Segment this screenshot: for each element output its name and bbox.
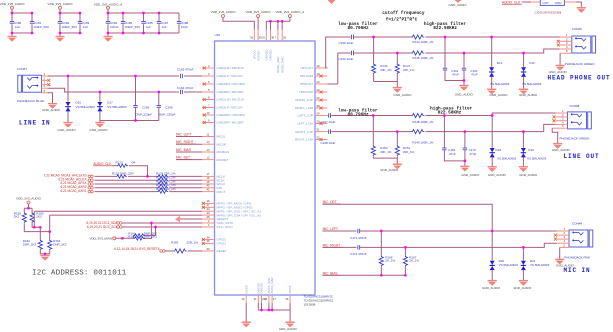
svg-text:MIC3L: MIC3L — [217, 135, 226, 139]
resistor R128 — [95, 187, 203, 193]
resistor R159 — [14, 212, 27, 224]
svg-text:DVSS: DVSS — [244, 285, 248, 293]
svg-text:RESET: RESET — [217, 249, 227, 253]
pin 33 RESET — [202, 247, 227, 253]
capacitor C165 DNP — [133, 75, 152, 121]
svg-text:47nF: 47nF — [452, 73, 459, 77]
ground CON7 GND_AUDIO — [42, 104, 61, 112]
svg-text:17: 17 — [207, 172, 210, 176]
diode D18 — [490, 114, 517, 166]
svg-text:R144 100R_1%: R144 100R_1% — [412, 40, 434, 44]
pin 36 DVDD — [250, 30, 256, 60]
resistor R162 DNP — [128, 235, 157, 240]
svg-text:CON#6: CON#6 — [572, 27, 582, 31]
capacitor C182 — [58, 21, 77, 29]
resistor R167 — [403, 246, 419, 277]
svg-text:R149 100R_1%: R149 100R_1% — [412, 141, 434, 145]
svg-text:DNP_2K2: DNP_2K2 — [53, 243, 67, 247]
pin 10 LINE2RM — [202, 111, 245, 117]
svg-text:GND_AUDIO: GND_AUDIO — [42, 108, 61, 112]
pin 43 MFP0 — [202, 211, 261, 217]
ground group3 — [103, 37, 112, 42]
resistor R145 — [411, 51, 434, 60]
svg-text:GND_AUDIO: GND_AUDIO — [549, 70, 568, 74]
svg-text:DRVDD: DRVDD — [269, 49, 273, 61]
net label MCA0_MCA3_AHCLKX0 — [44, 174, 94, 178]
svg-text:GND_AUDIO: GND_AUDIO — [519, 173, 538, 177]
svg-text:LINE2RP / MIC2RP: LINE2RP / MIC2RP — [217, 121, 244, 125]
svg-text:GND_AUDIO: GND_AUDIO — [455, 92, 474, 96]
connector CON6 phonejack green — [572, 27, 596, 53]
svg-text:36: 36 — [250, 36, 253, 40]
pin 9 LINE2RP — [202, 118, 244, 124]
svg-text:MICBIAS: MICBIAS — [217, 150, 230, 154]
svg-text:LINE1RP / MIC1RP: LINE1RP / MIC1RP — [217, 90, 244, 94]
pin 47 AVSS_DAC — [270, 276, 276, 303]
ground D21 — [513, 281, 532, 291]
svg-text:cutoff frequency: cutoff frequency — [382, 11, 425, 16]
ground CON6 — [549, 66, 568, 74]
svg-text:1012808: 1012808 — [304, 303, 316, 307]
svg-text:C159 10uF: C159 10uF — [339, 41, 354, 45]
wire VDD to R159 R160 — [24, 204, 32, 212]
svg-text:45: 45 — [207, 215, 210, 219]
svg-text:C164 470nF: C164 470nF — [177, 86, 194, 90]
svg-text:20K_1%: 20K_1% — [380, 68, 392, 72]
CON8 pin 1 — [555, 109, 567, 113]
pin 22 HPRCOM — [299, 88, 327, 94]
svg-text:DNP_220pF: DNP_220pF — [159, 113, 176, 117]
pin 29 LEFT_LOP — [298, 111, 328, 117]
svg-text:47nF: 47nF — [470, 152, 477, 156]
ground AVSS GND_AUDIO — [279, 322, 298, 331]
svg-text:6,19,20,21 I2C3_SCL: 6,19,20,21 I2C3_SCL — [87, 225, 118, 229]
wire LINE IN left channel — [48, 75, 203, 77]
connector CON7 phonejack blue — [17, 67, 44, 103]
svg-text:AVSS_DAC: AVSS_DAC — [270, 276, 274, 293]
svg-text:U20: U20 — [215, 33, 221, 37]
svg-text:LINE IN: LINE IN — [19, 120, 51, 127]
resistor R165 — [171, 240, 202, 253]
capacitor C188 — [177, 21, 189, 29]
pin 17 MCLK — [202, 172, 226, 178]
pin 11 MIC3L — [202, 132, 226, 138]
svg-text:6,12,14,15,18,21 SYS_RESET#: 6,12,14,15,18,21 SYS_RESET# — [114, 247, 160, 251]
svg-text:C172 470nF: C172 470nF — [350, 252, 367, 256]
ground HP shunt — [393, 88, 412, 97]
svg-text:18: 18 — [317, 64, 320, 68]
net label MCA0_AXR1 — [60, 189, 93, 193]
svg-text:10uF: 10uF — [181, 25, 188, 29]
capacitor C171 — [350, 229, 367, 240]
ground fragment with GND_AUDIO top — [449, 0, 468, 7]
svg-text:20K_1%: 20K_1% — [403, 68, 415, 72]
net label MIC_DET at U20 — [176, 156, 202, 160]
svg-text:MIC IN: MIC IN — [564, 267, 591, 274]
svg-text:VDD_3V3_AUDIO: VDD_3V3_AUDIO — [16, 197, 42, 201]
svg-text:2K2: 2K2 — [14, 215, 20, 219]
wire R163 R164 to ground — [40, 251, 49, 255]
diode D19 — [521, 130, 547, 166]
CON9 pin 2 — [554, 231, 569, 237]
resistor R122 — [112, 161, 148, 177]
svg-text:C163 470nF: C163 470nF — [177, 68, 194, 72]
CON6 pin 1 — [560, 33, 572, 37]
pin 15 WCLK — [202, 180, 226, 186]
svg-text:AVDD_DAC: AVDD_DAC — [280, 56, 284, 73]
svg-text:VS.5MLA0603: VS.5MLA0603 — [76, 105, 96, 109]
svg-text:21: 21 — [254, 297, 257, 301]
capacitor C169 shunt — [442, 114, 465, 161]
power net VDD_3V3_MAIN — [89, 236, 115, 240]
capacitor C185 — [121, 21, 140, 29]
svg-text:2K_1%: 2K_1% — [385, 259, 395, 263]
ground D15 — [519, 89, 538, 97]
resistor R124 — [156, 171, 202, 178]
wire R150 R151 rail — [373, 157, 397, 159]
svg-text:VS.5MLA0603: VS.5MLA0603 — [107, 105, 127, 109]
svg-text:DRVSS: DRVSS — [260, 283, 264, 294]
svg-text:1uF: 1uF — [162, 25, 167, 29]
diode D15 — [521, 52, 542, 89]
svg-text:MONO_LOM: MONO_LOM — [295, 106, 313, 110]
svg-text:PHONEJACK GREEN: PHONEJACK GREEN — [560, 136, 590, 140]
pin 12 MICDET — [202, 155, 228, 161]
diode D21 — [521, 246, 550, 280]
pin 5 LINE1RP — [202, 88, 244, 94]
ground D14 — [487, 89, 508, 97]
svg-text:MIC_DET: MIC_DET — [323, 200, 337, 204]
svg-text:32: 32 — [317, 135, 320, 139]
wire VDD_3V3_AUDIO_A rail — [108, 9, 179, 36]
svg-text:LEFT_LOP: LEFT_LOP — [298, 114, 313, 118]
svg-text:15: 15 — [207, 180, 210, 184]
diode D16 — [65, 75, 95, 123]
wire VDD_3V3_AUDIO rail — [60, 9, 80, 36]
wire R146 R147 rail — [374, 81, 398, 83]
svg-text:100nF: 100nF — [110, 25, 119, 29]
CON6 pin 5 — [560, 49, 572, 53]
resistor R125 — [95, 176, 203, 182]
ground LO shunt — [380, 164, 402, 172]
ground D18 — [488, 167, 507, 177]
diode D14 — [489, 36, 510, 89]
resistor R147 shunt — [395, 52, 414, 88]
svg-text:GND_AUDIO: GND_AUDIO — [393, 93, 412, 97]
svg-text:47: 47 — [273, 297, 276, 301]
wire CON8 pin5 to ground — [552, 128, 558, 143]
net label I2C3_SDA — [86, 221, 202, 225]
svg-text:16: 16 — [207, 176, 210, 180]
svg-text:VDD_1V8_AUDIO: VDD_1V8_AUDIO — [0, 2, 25, 6]
ground CON9 — [555, 259, 575, 267]
CON6 pin 4 — [560, 45, 572, 49]
pin 28 MONO_LOM — [295, 104, 327, 110]
pin 19 HPLCOM — [300, 72, 328, 78]
svg-text:C166: C166 — [166, 106, 174, 110]
svg-text:LEFT_LOM: LEFT_LOM — [297, 122, 313, 126]
CON9 pin 1 — [557, 227, 569, 231]
svg-text:VS.5MLA0603: VS.5MLA0603 — [490, 82, 510, 86]
wire R159 to MFP0 net — [24, 215, 202, 232]
svg-text:f=1/2*PI*R*C: f=1/2*PI*R*C — [386, 18, 418, 23]
pin 49 AVSS — [285, 285, 292, 303]
capacitor C180 — [10, 21, 22, 29]
wire LEFT_LOP to filter — [327, 113, 555, 116]
power net VDD_1V8_AUDIO — [0, 2, 25, 9]
capacitor C170 shunt — [463, 130, 477, 166]
pin 14 MIC3R — [202, 140, 227, 146]
svg-text:44: 44 — [207, 207, 210, 211]
svg-text:MIC3R: MIC3R — [217, 142, 227, 146]
svg-text:46: 46 — [207, 199, 210, 203]
power net VDD_3V3_AUDIO_A at U20 — [276, 10, 306, 18]
capacitor C160 — [339, 51, 354, 61]
CON7 pin 5 — [42, 89, 48, 93]
wire VDD_1V8_AUDIO to DVDD — [223, 18, 254, 30]
capacitor C161 shunt — [443, 36, 464, 81]
pin 26 AVDD_DAC — [280, 30, 286, 74]
resistor R144 — [411, 35, 434, 44]
svg-text:13: 13 — [207, 148, 210, 152]
wire CON6 pin5 to ground — [559, 53, 561, 65]
ground C169 C170 — [460, 166, 480, 177]
svg-text:30: 30 — [317, 119, 320, 123]
svg-text:CON#7: CON#7 — [17, 67, 27, 71]
capacitor C164 — [177, 86, 194, 94]
wire HPROUT to filter — [327, 49, 559, 84]
CON8 pin 4 — [555, 120, 567, 124]
svg-text:C160 10uF: C160 10uF — [339, 57, 354, 61]
svg-text:PHONEJACK BLUE: PHONEJACK BLUE — [17, 99, 44, 103]
svg-text:R123 DNP_22R: R123 DNP_22R — [112, 171, 134, 175]
junction SCL riser — [144, 227, 156, 235]
svg-text:VS.5MLA0603: VS.5MLA0603 — [530, 263, 550, 267]
wire CON7 pin5 to ground — [48, 93, 53, 104]
net label MIC_BIAS at U20 — [176, 148, 202, 152]
svg-text:1uF: 1uF — [146, 25, 151, 29]
svg-text:HPROUT: HPROUT — [300, 82, 313, 86]
svg-text:100nF_50V: 100nF_50V — [62, 25, 78, 29]
svg-text:R128 22R_1%: R128 22R_1% — [156, 187, 176, 191]
svg-text:6,21 MCA0_AXR1: 6,21 MCA0_AXR1 — [60, 189, 86, 193]
svg-text:42: 42 — [242, 297, 245, 301]
resistor R151 shunt — [395, 130, 414, 164]
svg-text:100nF_50V: 100nF_50V — [125, 25, 141, 29]
svg-text:47: 47 — [207, 203, 210, 207]
wire VDD_3V3_MAIN to resistors — [116, 235, 134, 238]
svg-text:LINE1RM / MIC1RM: LINE1RM / MIC1RM — [217, 82, 246, 86]
resistor R161 DNP — [128, 231, 157, 237]
ground group2 — [55, 37, 64, 42]
svg-text:43: 43 — [207, 211, 210, 215]
svg-text:31: 31 — [317, 127, 320, 131]
svg-text:10: 10 — [207, 111, 210, 115]
svg-text:LINE2LP / MIC2LP: LINE2LP / MIC2LP — [217, 106, 243, 110]
svg-text:23: 23 — [317, 80, 320, 84]
resistor R123 DNP — [95, 171, 158, 178]
connector CON8 phonejack green — [568, 104, 592, 129]
svg-text:35: 35 — [207, 239, 210, 243]
capacitor C162 shunt — [462, 52, 478, 86]
junction dots group2 — [59, 12, 62, 15]
op-amp U20 TLV320AIC3106 body — [215, 33, 316, 295]
svg-text:D19: D19 — [528, 148, 534, 152]
resistor R164 DNP — [48, 232, 67, 251]
svg-text:OUT: OUT — [542, 1, 549, 5]
pin 13 MICBIAS — [202, 148, 229, 154]
pin 7 AVDD_ADC — [275, 30, 281, 74]
svg-text:LINE2LM / MIC2LM: LINE2LM / MIC2LM — [217, 98, 245, 102]
svg-text:IOVDD: IOVDD — [257, 50, 261, 61]
svg-text:48: 48 — [264, 297, 267, 301]
wire VDD_3V3_AUDIO_A rail to AVDD pins — [266, 18, 290, 30]
svg-text:14: 14 — [207, 140, 210, 144]
CON9 pin 3 — [554, 235, 569, 241]
svg-text:19: 19 — [317, 72, 320, 76]
power net VDD_3V3_AUDIO at U20 — [246, 10, 272, 18]
CON6 pin 3 — [557, 41, 572, 47]
svg-text:34: 34 — [207, 235, 210, 239]
wire DVSS to ground — [245, 303, 247, 322]
svg-text:R148 100R_1%: R148 100R_1% — [412, 120, 434, 124]
net label MIC_LEFT — [323, 227, 557, 231]
svg-text:822.58KHz: 822.58KHz — [433, 26, 457, 31]
ground pulldowns — [40, 256, 49, 261]
CON8 pin 2 — [553, 113, 568, 119]
capacitor C167 — [321, 113, 336, 124]
svg-text:47nF: 47nF — [471, 73, 478, 77]
ground D17 — [89, 123, 108, 132]
svg-text:49: 49 — [285, 297, 288, 301]
svg-text:C171 470nF: C171 470nF — [350, 236, 367, 240]
pin 23 HPROUT — [300, 80, 327, 86]
capacitor C184 — [106, 21, 119, 29]
ground D16 — [58, 123, 77, 132]
svg-text:CON#9: CON#9 — [572, 222, 582, 226]
svg-text:31: 31 — [262, 36, 265, 40]
CON7 pin 3 — [42, 81, 51, 87]
svg-text:CJO05-24576332C608: CJO05-24576332C608 — [535, 10, 562, 14]
svg-text:29: 29 — [317, 111, 320, 115]
pin 48 AVSS_ADC — [264, 276, 271, 303]
svg-text:SCL / GPIO: SCL / GPIO — [217, 225, 234, 229]
pin 3 LINE1LP — [202, 72, 242, 78]
net label MIC_BIAS — [323, 272, 406, 276]
svg-text:GND_AUDIO: GND_AUDIO — [488, 173, 507, 177]
ground oscillator — [577, 8, 586, 13]
CON9 pin 5 — [560, 243, 569, 247]
capacitor C159 — [339, 35, 354, 45]
wire CON9 pin5 to ground — [559, 247, 561, 259]
wire LINE IN right channel — [48, 88, 203, 92]
ground CON8 — [552, 144, 571, 152]
oscillator U CJO05 — [531, 0, 581, 7]
svg-text:RIGHT_LOM: RIGHT_LOM — [295, 138, 313, 142]
svg-text:D14: D14 — [497, 61, 503, 65]
svg-text:RIGHT_LOP: RIGHT_LOP — [295, 130, 313, 134]
resistor R163 DNP — [23, 227, 43, 250]
resistor R166 — [379, 230, 395, 277]
capacitor C168 — [321, 129, 336, 144]
svg-text:22: 22 — [317, 88, 320, 92]
svg-text:CON#8: CON#8 — [569, 104, 579, 108]
resistor R127 — [95, 183, 203, 189]
pin 30 LEFT_LOM — [297, 119, 327, 125]
text high-pass filter LO — [430, 107, 473, 116]
power net VDD_3V3_AUDIO top — [48, 2, 74, 9]
capacitor C181 — [30, 21, 49, 29]
pin 8 LINE2LM — [202, 95, 244, 101]
SELECT arrow — [175, 216, 202, 223]
text cutoff frequency — [382, 11, 425, 23]
pin 44 MFP1 — [202, 207, 261, 213]
CON9 pin 4 — [557, 239, 569, 243]
svg-text:MIC_DET: MIC_DET — [176, 156, 190, 160]
svg-text:VS.5MLA0603: VS.5MLA0603 — [499, 263, 519, 267]
wire RIGHT_LOP to filter — [327, 124, 555, 131]
ground DVSS — [242, 322, 251, 327]
svg-text:R122: R122 — [116, 161, 124, 165]
pin 31 RIGHT_LOP — [295, 127, 327, 133]
net label I2C3_SCL — [87, 225, 202, 229]
svg-text:D18: D18 — [496, 148, 502, 152]
wire R160 to MFP1 net — [32, 211, 202, 227]
svg-text:822.58KHz: 822.58KHz — [438, 110, 462, 115]
svg-text:LINE OUT: LINE OUT — [564, 153, 600, 160]
capacitor C166 DNP — [157, 91, 176, 121]
text high-pass filter HP — [424, 22, 467, 31]
svg-text:I2C ADDRESS: 0011011: I2C ADDRESS: 0011011 — [32, 270, 127, 278]
svg-text:DOUT: DOUT — [217, 190, 226, 194]
junction SDA riser — [144, 223, 152, 238]
svg-text:VDD_3V3_AUDIO_A: VDD_3V3_AUDIO_A — [276, 10, 306, 14]
pin 46 MFP3 — [202, 199, 252, 205]
svg-text:C168 10uF: C168 10uF — [321, 141, 336, 145]
svg-text:100nF_50V: 100nF_50V — [34, 25, 50, 29]
svg-text:GND_AUDIO: GND_AUDIO — [380, 168, 399, 172]
ground D19 — [519, 167, 538, 177]
svg-text:MIC_LEFT: MIC_LEFT — [176, 133, 191, 137]
svg-text:R162: R162 — [128, 235, 136, 239]
svg-text:1uF: 1uF — [83, 25, 88, 29]
svg-text:2K_1%: 2K_1% — [409, 259, 419, 263]
pin 35 GPIO1 — [202, 239, 226, 245]
svg-text:VDD_3V3_AUDIO: VDD_3V3_AUDIO — [246, 10, 272, 14]
net label AUDIO_CLK — [93, 162, 112, 166]
connector CON9 phonejack pink — [569, 222, 593, 247]
CON7 pin 4 — [42, 84, 48, 88]
pin 1 SCL — [202, 223, 233, 229]
power net VDD_3V3_AUDIO_A top — [94, 3, 124, 10]
power net VDD_1V8_AUDIO at U20 — [211, 10, 237, 18]
ground D20 — [482, 281, 501, 291]
capacitor C187 — [157, 21, 169, 29]
svg-text:GND_AUDIO: GND_AUDIO — [89, 128, 108, 132]
svg-text:GND_AUDIO: GND_AUDIO — [482, 286, 501, 290]
svg-text:R165: R165 — [171, 240, 179, 244]
svg-text:LINE2RM / MIC2RM: LINE2RM / MIC2RM — [217, 113, 246, 117]
resistor R150 shunt — [371, 114, 392, 158]
svg-text:DNP_220pF: DNP_220pF — [136, 113, 153, 117]
resistor R126 — [95, 179, 203, 185]
svg-text:22R_1%: 22R_1% — [186, 240, 198, 244]
capacitor C163 — [177, 68, 194, 79]
svg-text:GND_AUDIO: GND_AUDIO — [552, 148, 571, 152]
svg-text:C165: C165 — [142, 106, 150, 110]
resistor R146 shunt — [372, 36, 392, 82]
svg-text:LINE1LM / MIC1LM: LINE1LM / MIC1LM — [217, 66, 245, 70]
